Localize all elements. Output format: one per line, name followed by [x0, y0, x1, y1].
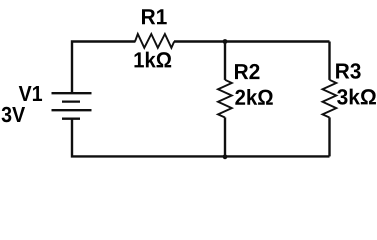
wire: left rail top + top rail to R1	[72, 42, 135, 94]
value 3V	[2, 107, 26, 122]
battery V1 plate 4 short	[62, 118, 80, 120]
value 1kΩ	[134, 52, 171, 68]
label R1	[142, 9, 167, 24]
value 2kΩ	[235, 89, 272, 105]
wire: R2 branch upper	[224, 42, 226, 80]
value 3kΩ	[337, 89, 376, 105]
resistor R3	[323, 80, 337, 118]
node B junction dot (bottom of R2 branch)	[223, 154, 228, 159]
wire: R2 branch lower	[224, 117, 226, 156]
label R2	[235, 64, 259, 79]
label V1	[19, 86, 42, 101]
resistor R2	[218, 80, 232, 118]
node A junction dot (top of R2 branch)	[223, 39, 228, 44]
resistor R1	[135, 34, 174, 48]
battery V1 plate 2 short	[62, 100, 80, 102]
wire: battery bottom, bottom rail	[72, 119, 330, 157]
battery V1 plate 3 long	[52, 109, 92, 111]
wire: right rail lower	[328, 117, 330, 156]
label R3	[336, 63, 361, 78]
battery V1 plate 1 long	[52, 92, 92, 94]
wire: top rail R1 to top-right corner	[174, 40, 330, 42]
wire: right rail upper	[328, 42, 330, 80]
